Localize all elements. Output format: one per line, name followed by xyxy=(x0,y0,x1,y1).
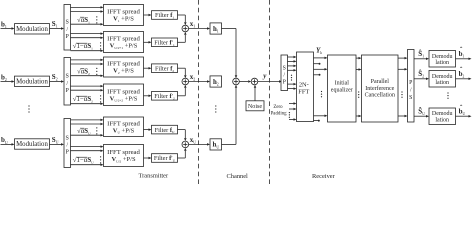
wire demodulation 2 output xyxy=(456,78,472,81)
svg-text:Receiver: Receiver xyxy=(312,173,336,180)
label sqrt(alpha)S_U upper branch xyxy=(77,127,91,135)
wire P/S to demodulation U xyxy=(414,115,429,118)
svg-text:VU/2 +P/S: VU/2 +P/S xyxy=(111,156,136,163)
dots between user rows left margin xyxy=(28,105,29,112)
node b_1 input label xyxy=(1,20,7,29)
dashed separator channel/receiver xyxy=(269,0,271,185)
svg-text:√αS1: √αS1 xyxy=(77,16,90,24)
svg-text:Modulation: Modulation xyxy=(16,141,48,148)
svg-text:V2 +P/S: V2 +P/S xyxy=(113,68,134,75)
dots lower branch row U xyxy=(100,156,101,163)
wire filter f_1 to adder xyxy=(178,15,187,25)
svg-text:S2: S2 xyxy=(52,73,58,82)
wire P/S to demodulation 1 xyxy=(414,58,429,61)
wire receiver S/P to FFT lines xyxy=(288,56,297,90)
svg-text:Filter f′U: Filter f′U xyxy=(154,155,176,162)
node b-hat_1 label xyxy=(459,46,465,58)
label Zero Padding xyxy=(271,105,288,117)
label sqrt(alpha)S_2 upper branch xyxy=(77,67,90,75)
svg-text:ˆ: ˆ xyxy=(460,104,463,112)
svg-text:IFFT spread: IFFT spread xyxy=(107,36,140,43)
node x_1 label xyxy=(190,20,196,29)
adder row 1 xyxy=(182,25,189,32)
svg-text:Demodu: Demodu xyxy=(432,54,453,60)
svg-text:VU/2+1 +P/S: VU/2+1 +P/S xyxy=(110,43,138,50)
wire IFFT to filter f_U xyxy=(144,128,152,131)
block 2N-FFT xyxy=(297,52,314,122)
block Filter f_1 xyxy=(152,11,178,20)
wire channel sum to noise adder xyxy=(239,80,251,83)
svg-text:Channel: Channel xyxy=(227,173,249,180)
svg-text:lation: lation xyxy=(435,60,449,66)
block Filter f_U xyxy=(152,125,178,134)
block Demodulation U xyxy=(429,108,456,125)
svg-text:y: y xyxy=(262,72,267,80)
svg-text:√1−αSU: √1−αSU xyxy=(73,156,94,164)
block Demodulation 2 xyxy=(429,71,456,88)
svg-text:√αS2: √αS2 xyxy=(77,67,90,75)
wire FFT to equalizer bottom line xyxy=(314,115,328,122)
block Demodulation 1 xyxy=(429,51,456,68)
svg-text:IFFT spread: IFFT spread xyxy=(107,120,140,127)
node S-hat_U label xyxy=(418,108,425,117)
wire modulation to S/P row 1 xyxy=(50,27,65,30)
node b-hat_2 label xyxy=(459,66,465,78)
wire equalizer to PIC lines xyxy=(356,57,362,71)
svg-text:Ŝ1: Ŝ1 xyxy=(418,50,424,59)
svg-text:xU: xU xyxy=(190,136,197,145)
wire S/P to IFFT upper branch lines row 1 xyxy=(71,6,104,25)
node S_U label xyxy=(52,136,59,145)
dots upper branch row U xyxy=(96,127,97,134)
node b_U input label xyxy=(1,136,8,145)
dots upper branch row 1 xyxy=(96,16,97,23)
svg-text:IFFT spread: IFFT spread xyxy=(107,9,140,16)
wire modulation to S/P row 2 xyxy=(50,80,65,83)
block Filter f'_2 xyxy=(152,92,178,101)
wire S/P to IFFT upper branch lines row U xyxy=(71,119,104,137)
wire modulation to S/P row U xyxy=(50,143,65,146)
node S-hat_2 label xyxy=(418,70,424,79)
wire noise to adder xyxy=(254,85,257,101)
block IFFT spread V_1 row 1 xyxy=(104,5,144,26)
svg-text:Modulation: Modulation xyxy=(16,26,48,33)
svg-text:Transmitter: Transmitter xyxy=(139,173,169,180)
wire S/P to IFFT lower branch lines row U xyxy=(71,145,104,166)
svg-text:S: S xyxy=(66,74,69,80)
svg-text:Interference: Interference xyxy=(365,85,394,92)
svg-text:Demodu: Demodu xyxy=(432,74,453,80)
wire IFFT to filter f'_U xyxy=(144,157,152,160)
wire FFT to equalizer lines xyxy=(314,57,328,71)
dots PIC to P/S xyxy=(401,91,402,97)
svg-text:2N-: 2N- xyxy=(299,82,309,89)
wire S/P to IFFT upper branch lines row 2 xyxy=(71,59,104,77)
dashed separator transmitter/channel xyxy=(198,0,200,185)
dots upper branch row 2 xyxy=(96,68,97,75)
wire filter f'_1 to adder xyxy=(178,32,187,43)
svg-text:√1−αS2: √1−αS2 xyxy=(73,95,93,103)
svg-text:V1 +P/S: V1 +P/S xyxy=(113,16,134,23)
block S/P converter row 1 xyxy=(64,5,71,51)
svg-text:Filter f′1: Filter f′1 xyxy=(154,40,175,47)
dots between h_2 and h_U xyxy=(215,105,216,112)
svg-text:SU: SU xyxy=(52,136,59,145)
svg-text:Filter f2: Filter f2 xyxy=(155,65,174,72)
wire filter f'_2 to adder xyxy=(178,85,187,96)
wire PIC to P/S bottom line xyxy=(398,115,408,118)
wire S/P to IFFT lower branch lines row 1 xyxy=(71,32,104,52)
svg-text:equalizer: equalizer xyxy=(331,87,353,93)
wire demodulation U output xyxy=(456,115,472,118)
block IFFT spread V_U/2+2 row 2 xyxy=(104,84,144,106)
svg-text:P: P xyxy=(409,80,412,86)
svg-text:Noise: Noise xyxy=(248,104,263,110)
node x_2 label xyxy=(190,73,196,82)
svg-text:bU: bU xyxy=(1,136,8,145)
svg-text:b2: b2 xyxy=(1,73,7,82)
node Y_k label xyxy=(316,47,322,56)
svg-text:√αSU: √αSU xyxy=(77,127,91,135)
block Modulation row U xyxy=(15,139,50,149)
svg-text:Filter fU: Filter fU xyxy=(155,127,175,134)
block channel h_U xyxy=(210,139,222,150)
block IFFT spread V_U/2 row U xyxy=(104,145,144,167)
block Filter f'_1 xyxy=(152,38,178,47)
wire filter f_U to adder xyxy=(178,130,187,142)
dots FFT to equalizer xyxy=(321,91,322,97)
wire equalizer to PIC bottom line xyxy=(356,115,362,118)
adder row 2 xyxy=(182,78,189,85)
wire adder to channel h_2 xyxy=(189,80,210,83)
node b-hat_U label xyxy=(459,104,466,116)
node y label xyxy=(262,72,267,80)
svg-text:S: S xyxy=(66,135,69,141)
svg-text:Initial: Initial xyxy=(335,80,350,86)
block IFFT spread V_2 row 2 xyxy=(104,57,144,77)
svg-text:Padding: Padding xyxy=(271,111,288,116)
dots equalizer to PIC xyxy=(358,91,359,97)
label sqrt(alpha)S_1 upper branch xyxy=(77,16,90,24)
dots lower branch row 2 xyxy=(100,95,101,102)
label Channel xyxy=(227,173,249,180)
block Filter f'_U xyxy=(152,154,178,163)
label sqrt(1-alpha)S_U lower branch xyxy=(73,156,94,164)
dots between demodulators xyxy=(447,92,448,98)
dots lower branch row 1 xyxy=(100,42,101,49)
adder row U xyxy=(182,141,189,148)
dots S/P to FFT xyxy=(291,75,292,81)
svg-text:Modulation: Modulation xyxy=(16,79,48,86)
label Transmitter xyxy=(139,173,169,180)
wire b_U to modulation xyxy=(1,143,15,146)
wire b_2 to modulation xyxy=(1,80,15,83)
label sqrt(1-alpha)S_1 lower branch xyxy=(73,42,93,50)
svg-text:S: S xyxy=(66,20,69,26)
block channel h_2 xyxy=(210,76,222,87)
svg-text:x1: x1 xyxy=(190,20,196,29)
svg-text:ŜU: ŜU xyxy=(418,108,425,117)
node b_2 input label xyxy=(1,73,7,82)
wire filter f'_U to adder xyxy=(178,148,187,158)
block channel h_1 xyxy=(210,23,222,34)
wire h_1 to channel adder xyxy=(222,29,238,79)
svg-text:S: S xyxy=(409,95,412,101)
block Modulation row 2 xyxy=(15,76,50,86)
wire IFFT to filter f'_2 xyxy=(144,95,152,98)
svg-text:VU/2+2 +P/S: VU/2+2 +P/S xyxy=(110,95,138,102)
svg-text:S1: S1 xyxy=(52,20,58,29)
svg-text:Yk: Yk xyxy=(316,47,322,56)
svg-text:S: S xyxy=(283,66,286,72)
svg-text:b1: b1 xyxy=(1,20,7,29)
block Filter f_2 xyxy=(152,64,178,73)
wire IFFT to filter f'_1 xyxy=(144,41,152,44)
svg-text:Ŝ2: Ŝ2 xyxy=(418,70,424,79)
svg-text:Cancellation: Cancellation xyxy=(365,93,395,99)
block Parallel Interference Cancellation xyxy=(362,55,399,122)
svg-text:IFFT spread: IFFT spread xyxy=(107,88,140,95)
svg-text:P: P xyxy=(283,80,286,86)
stub FFT output bullet lines xyxy=(314,63,321,76)
block Noise xyxy=(246,101,264,111)
svg-text:√1−αS1: √1−αS1 xyxy=(73,42,93,50)
wire h_U to channel adder xyxy=(222,85,238,145)
label sqrt(1-alpha)S_2 lower branch xyxy=(73,95,93,103)
svg-text:x2: x2 xyxy=(190,73,196,82)
block receiver P/S xyxy=(408,50,415,123)
svg-text:lation: lation xyxy=(435,118,449,124)
svg-text:Parallel: Parallel xyxy=(371,79,390,85)
wire zero padding lines xyxy=(289,102,297,121)
adder noise xyxy=(251,78,258,85)
wire PIC to P/S lines xyxy=(398,57,408,71)
wire adder to channel h_1 xyxy=(189,27,210,30)
svg-text:IFFT spread: IFFT spread xyxy=(107,61,140,68)
wire y to receiver S/P xyxy=(258,80,282,83)
block S/P converter row U xyxy=(64,119,71,168)
svg-text:Filter f′2: Filter f′2 xyxy=(154,93,175,100)
svg-text:IFFT spread: IFFT spread xyxy=(107,149,140,156)
adder channel sum xyxy=(233,78,240,85)
wire IFFT to filter f_2 xyxy=(144,67,152,70)
dots zero padding xyxy=(289,112,290,118)
svg-text:ˆ: ˆ xyxy=(460,66,463,74)
wire filter f_2 to adder xyxy=(178,68,187,78)
wire P/S to demodulation 2 xyxy=(414,78,429,81)
wire IFFT to filter f_1 xyxy=(144,14,152,17)
svg-text:Zero: Zero xyxy=(273,105,283,110)
wire b_1 to modulation xyxy=(1,27,15,30)
node S_2 label xyxy=(52,73,58,82)
svg-text:lation: lation xyxy=(435,80,449,86)
svg-text:VU +P/S: VU +P/S xyxy=(113,127,135,134)
node S_1 label xyxy=(52,20,58,29)
block Initial equalizer xyxy=(328,55,357,122)
svg-text:Filter f1: Filter f1 xyxy=(155,12,174,19)
wire demodulation 1 output xyxy=(456,58,472,61)
svg-text:Demodu: Demodu xyxy=(432,111,453,117)
block IFFT spread V_U row U xyxy=(104,117,144,137)
wire adder to channel h_U xyxy=(189,143,210,146)
block IFFT spread V_U/2+1 row 1 xyxy=(104,32,144,53)
label Receiver xyxy=(312,173,336,180)
node x_U label xyxy=(190,136,197,145)
wire S/P to IFFT lower branch lines row 2 xyxy=(71,85,104,105)
svg-text:ˆ: ˆ xyxy=(460,46,463,54)
node S-hat_1 label xyxy=(418,50,424,59)
block S/P converter row 2 xyxy=(64,58,71,106)
block receiver S/P xyxy=(281,55,288,91)
block Modulation row 1 xyxy=(15,24,50,34)
svg-text:FFT: FFT xyxy=(298,89,309,96)
